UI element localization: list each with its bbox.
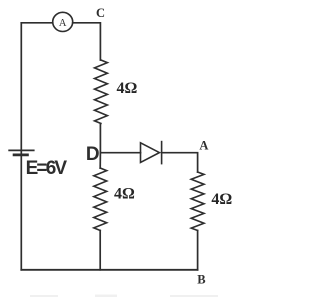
battery E short plate (negative): [14, 153, 27, 156]
wire top horizontal right segment (ammeter to corner C) and down to R1 top: [73, 23, 101, 60]
svg-text:D: D: [86, 144, 100, 165]
battery E long plate (positive): [9, 149, 34, 151]
diode D1 (anode at D side, cathode toward A): [141, 142, 162, 164]
wire node D down to R2 top: [99, 153, 101, 168]
resistor R1 (between C and D): [95, 60, 108, 124]
wire R3 bottom to node B corner: [197, 231, 199, 270]
svg-text:4Ω: 4Ω: [117, 80, 138, 97]
wire bottom horizontal (battery minus to B): [21, 269, 197, 271]
svg-text:A: A: [59, 18, 67, 29]
resistor R3 (between A and B): [191, 172, 204, 231]
wire R1 bottom to node D junction: [99, 124, 101, 153]
svg-text:C: C: [96, 6, 105, 20]
svg-text:A: A: [199, 138, 208, 152]
svg-text:4Ω: 4Ω: [211, 191, 232, 208]
resistor R2 (middle branch, D to bottom wire): [94, 168, 107, 231]
ammeter A: [53, 12, 73, 31]
wire top horizontal left segment (corner to ammeter): [21, 22, 52, 24]
wire R2 bottom lead to bottom wire junction: [99, 231, 101, 270]
svg-text:E=6V: E=6V: [26, 158, 68, 179]
svg-text:B: B: [197, 273, 205, 287]
wire diode cathode to corner A and down to R3 top: [162, 153, 198, 172]
faint cropped caption remnants at bottom edge: [30, 295, 218, 298]
wire node D to diode anode: [100, 152, 140, 154]
svg-text:4Ω: 4Ω: [114, 186, 135, 203]
wire left vertical (battery branch, top-left corner to bottom-left corner): [20, 23, 22, 270]
